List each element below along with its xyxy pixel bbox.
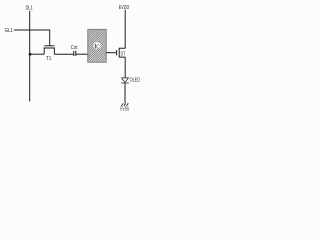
- wire: Cst to hatched block: [76, 53, 88, 55]
- transistor T1 (switching TFT): [44, 46, 55, 54]
- label C on block: [93, 42, 100, 49]
- wire: OLED cathode to EVSS: [124, 83, 126, 103]
- svg-text:OLED: OLED: [130, 78, 140, 84]
- svg-text:EVSS: EVSS: [120, 107, 129, 113]
- svg-text:GL1: GL1: [5, 28, 13, 34]
- ground EVSS hatch marks: [121, 103, 128, 106]
- svg-text:Cst: Cst: [71, 45, 78, 51]
- svg-text:DT: DT: [121, 51, 126, 57]
- wire: block to DT gate: [106, 52, 116, 54]
- wire: T1 drain to Cst: [54, 53, 73, 55]
- background: [0, 0, 148, 120]
- wire: junction to T1 source: [30, 53, 44, 55]
- hatched block (gate-node structure): [88, 29, 106, 62]
- svg-text:T1: T1: [46, 56, 51, 62]
- transistor DT (driving TFT): [117, 48, 126, 58]
- svg-text:EVDD: EVDD: [119, 5, 129, 11]
- wire: data line DL1 vertical: [29, 11, 31, 102]
- svg-text:C: C: [96, 44, 99, 50]
- wire: DT source down to OLED: [124, 57, 126, 78]
- wire: gate line GL1 horizontal to T1 gate corner: [14, 30, 50, 46]
- svg-text:DL1: DL1: [26, 5, 33, 11]
- wire: EVDD to DT drain: [124, 10, 126, 48]
- node junction dot DL1/T1: [29, 53, 32, 56]
- diode OLED: [121, 78, 129, 83]
- capacitor Cst: [74, 51, 76, 56]
